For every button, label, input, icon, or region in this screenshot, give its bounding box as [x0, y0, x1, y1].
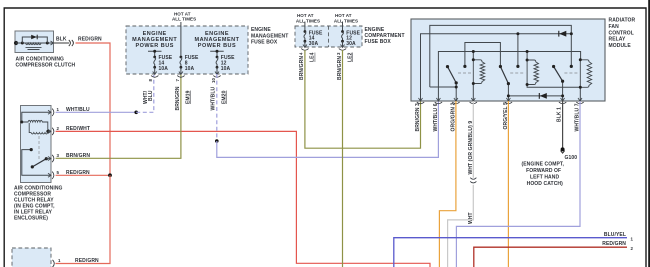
divider engine compartment fuse box [328, 26, 330, 47]
svg-text:30A: 30A [346, 41, 356, 47]
svg-text:POWER BUS: POWER BUS [135, 43, 173, 49]
ground G100 [561, 147, 565, 151]
svg-text:LE2: LE2 [347, 52, 353, 62]
svg-text:ENGINE: ENGINE [251, 27, 271, 33]
node clutch left branch [21, 42, 24, 45]
svg-text:HOT AT: HOT AT [335, 13, 352, 18]
node relay blade rest [31, 165, 34, 168]
svg-text:RED/GRN: RED/GRN [602, 241, 626, 247]
wire coil3 bottom to pin7 [579, 87, 581, 101]
wire relay2 NO drop [517, 34, 519, 66]
linkage dashes K1-L1 [458, 72, 472, 74]
node relay coil B [46, 130, 49, 133]
wire BRN/GRN ECF pin3 down [342, 50, 344, 267]
svg-text:ENGINE: ENGINE [143, 31, 167, 37]
wire WHT/BLU dashed to fuse 14 [136, 75, 154, 112]
wire feed fuse14 ECF [304, 22, 306, 32]
connector arcs module pins [417, 102, 584, 104]
coil L2 [527, 60, 538, 85]
fuse 8 10A [180, 56, 183, 59]
svg-text:EM20: EM20 [222, 90, 228, 104]
junction node line B relay2 [516, 32, 519, 35]
diode D1 on line B [559, 31, 566, 37]
svg-text:BLK: BLK [56, 37, 67, 43]
svg-text:BLU/YEL: BLU/YEL [604, 232, 626, 238]
pin arrows relay right edge [48, 110, 51, 177]
wire line C [465, 43, 501, 67]
svg-text:RED/GRN: RED/GRN [75, 258, 99, 264]
junction node line A line B [570, 32, 573, 35]
clutch terminal node [14, 41, 18, 45]
wire feed fuse12 ECF [342, 22, 344, 32]
relay switch blade [32, 159, 46, 167]
A/C compressor clutch box [15, 31, 54, 53]
svg-text:FUSE BOX: FUSE BOX [365, 39, 392, 45]
wire RED/GRN clutch feed [76, 43, 111, 175]
svg-text:FUSE BOX: FUSE BOX [251, 39, 278, 45]
svg-text:G100: G100 [565, 155, 578, 161]
wire clutch diode branch [22, 37, 47, 43]
svg-text:10A: 10A [159, 66, 169, 72]
relay coil winding 2 [29, 123, 48, 134]
bottom left component box dashed [12, 248, 51, 267]
svg-text:CONTROL: CONTROL [609, 30, 634, 36]
wire WHT/BLU dashed fuse12 down [216, 74, 218, 141]
pin arrows ECF bottom [303, 45, 345, 48]
svg-text:HOOD CATCH): HOOD CATCH) [527, 181, 564, 187]
wire relay pin1 internal [22, 112, 51, 122]
svg-text:RED/GRN: RED/GRN [78, 37, 102, 43]
coil L1 [473, 60, 484, 84]
splice node S1 [134, 111, 138, 115]
wire EM feed [180, 22, 182, 57]
svg-text:LEFT HAND: LEFT HAND [530, 174, 560, 180]
wire BLK module pin1 to ground [562, 101, 564, 149]
svg-text:30A: 30A [309, 41, 319, 47]
wire relay pin3 internal [46, 158, 51, 160]
pin arrows module bottom [419, 98, 583, 101]
svg-text:FAN: FAN [609, 24, 620, 30]
clutch plate bars [26, 48, 42, 50]
wire WHT module pin9 upper [472, 101, 474, 178]
svg-text:BRN/GRN: BRN/GRN [175, 86, 181, 110]
svg-text:BLK 1: BLK 1 [557, 107, 563, 122]
wire RED/GRN relay pin5 [56, 174, 110, 176]
connector arcs EM pins [151, 76, 221, 78]
svg-text:RELAY: RELAY [609, 37, 627, 43]
wire coil1 bottom to pin9 [472, 84, 474, 102]
fuse 12 10A [216, 56, 219, 59]
wire ORG/YEL module pin5 [507, 101, 509, 267]
wire coil2 top [526, 52, 528, 61]
connector arcs ECF pins [301, 49, 346, 51]
wire WHT/BLU to module pin6 [217, 101, 439, 157]
wire relay pin2 internal [48, 130, 51, 132]
wire switch3 common to pin1 [562, 81, 564, 101]
switch K1 [448, 67, 457, 83]
fuse 12 30A [341, 30, 344, 33]
fuse 14 10A [153, 56, 156, 59]
diode clutch suppression [31, 35, 37, 40]
clutch coil winding [26, 43, 42, 45]
svg-text:ALL TIMES: ALL TIMES [334, 18, 358, 23]
svg-text:10A: 10A [185, 66, 195, 72]
connector arcs relay pins [52, 109, 54, 179]
wire bottom bus [508, 95, 562, 97]
wire BRN/GRN ECF pin4 to module pin3 [305, 50, 421, 148]
wire coil1 top [472, 52, 474, 60]
diode D2 on bottom bus [540, 93, 547, 99]
svg-text:ENGINE: ENGINE [205, 31, 229, 37]
svg-text:ALL TIMES: ALL TIMES [172, 17, 196, 22]
engine compartment fuse box [295, 26, 362, 47]
fuse 14 30A [304, 30, 307, 33]
splice node S2 [215, 139, 219, 143]
svg-text:BRN/GRN 3: BRN/GRN 3 [415, 103, 421, 132]
engine management fuse box [126, 26, 248, 74]
svg-text:10A: 10A [221, 66, 231, 72]
wire RED/GRN down to connector [56, 175, 111, 263]
wire relay pin5 internal to contact [22, 150, 51, 176]
wire clutch internal main [16, 42, 54, 44]
svg-text:(ENGINE COMPT,: (ENGINE COMPT, [521, 162, 564, 168]
wire WHT/BLU relay pin1 [56, 111, 137, 113]
svg-text:10: 10 [211, 78, 216, 83]
svg-text:ENCLOSURE): ENCLOSURE) [14, 216, 48, 222]
A/C compressor clutch relay box [21, 106, 52, 183]
connector inline C100 [69, 40, 74, 46]
radiator fan control relay module box [411, 19, 605, 101]
wire line B [421, 34, 572, 101]
wire ORG/GRN module pin2 [439, 101, 456, 267]
connector inline WHT [470, 178, 476, 183]
svg-text:FORWARD OF: FORWARD OF [526, 168, 561, 174]
wire WHT/BLU module pin7 [456, 101, 580, 267]
wire BRN/GRN relay pin3 [56, 74, 181, 158]
wire switch1 common to pin2 [455, 83, 457, 101]
wire WHT module pin9 lower [448, 185, 474, 267]
wire line D [438, 52, 580, 102]
wire BLK from clutch [54, 42, 70, 44]
wire RED/WHT relay pin2 [56, 131, 430, 267]
svg-text:HOT AT: HOT AT [297, 13, 314, 18]
linkage dashes K2-L2 [510, 72, 525, 74]
node relay fixed contact [30, 148, 33, 151]
wire RED/GRN output [474, 247, 627, 267]
power bus bar left [148, 51, 162, 57]
svg-text:LE4: LE4 [310, 52, 316, 62]
pin arrows EM box bottom [153, 72, 219, 75]
relay linkage dashed [38, 136, 40, 161]
node relay coil A [20, 121, 23, 124]
switch K3 [554, 67, 563, 82]
wire BLU/YEL output [394, 238, 627, 267]
relay coil winding 1 [23, 120, 48, 131]
wire line A to switch1 common [430, 86, 456, 88]
power bus bar right [210, 51, 224, 57]
svg-text:MANAGEMENT: MANAGEMENT [132, 37, 177, 43]
svg-text:BLU: BLU [148, 90, 154, 101]
pin arrow clutch output [51, 41, 54, 45]
svg-text:MANAGEMENT: MANAGEMENT [194, 37, 239, 43]
junction node RED/GRN [108, 173, 112, 177]
connector arc bottom left pin [53, 260, 55, 267]
svg-text:WHT/BLU: WHT/BLU [211, 86, 217, 110]
linkage dashes K3-L3 [564, 72, 578, 74]
coil L3 [580, 60, 591, 88]
node clutch right branch [46, 42, 49, 45]
svg-text:ALL TIMES: ALL TIMES [296, 18, 320, 23]
wire line A [430, 25, 572, 87]
node relay blade common [45, 157, 48, 160]
wire switch2 common to pin5 [507, 84, 509, 101]
svg-text:RADIATOR: RADIATOR [609, 18, 636, 24]
svg-text:POWER BUS: POWER BUS [198, 43, 236, 49]
svg-text:WHT/BLU 6: WHT/BLU 6 [433, 103, 439, 131]
svg-text:COMPRESSOR CLUTCH: COMPRESSOR CLUTCH [16, 62, 76, 68]
wire coil2 bottom to coil3 bottom [527, 85, 580, 88]
svg-text:MODULE: MODULE [609, 43, 632, 49]
switch K2 [500, 67, 508, 84]
svg-text:EM19: EM19 [186, 90, 192, 104]
